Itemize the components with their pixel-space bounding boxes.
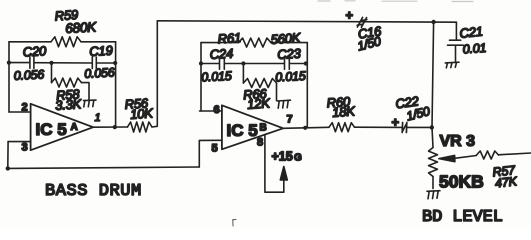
wire: main vertical to VR3: [432, 22, 434, 148]
wire: C21 to ground: [455, 45, 457, 62]
svg-text:6: 6: [214, 104, 220, 116]
wire: rail riser to pin5: [199, 140, 222, 167]
node: cap line 2 right junction: [304, 61, 308, 65]
capacitor C20: [30, 57, 34, 69]
svg-text:C24: C24: [209, 46, 233, 62]
svg-text:IC 5: IC 5: [36, 120, 67, 139]
wire: cap line 2 mid: [225, 63, 285, 65]
svg-text:BASS DRUM: BASS DRUM: [45, 182, 142, 201]
+15G supply arrow: [280, 167, 287, 181]
wire: cap line 2 left: [201, 63, 219, 65]
wire: cap line left: [9, 62, 30, 64]
node: cap line 2 left junction: [199, 61, 203, 65]
svg-text:3.3K: 3.3K: [55, 96, 83, 113]
wire: R58 drop from mid node: [51, 63, 53, 83]
svg-text:5: 5: [212, 143, 218, 155]
resistor R66: [243, 79, 276, 88]
svg-text:12K: 12K: [247, 95, 272, 112]
wire: box2 top edge right segment: [271, 42, 307, 44]
capacitor C19: [92, 57, 96, 69]
capacitor C22 (electrolytic): [402, 123, 407, 133]
svg-text:+: +: [392, 115, 400, 130]
svg-text:0.056: 0.056: [84, 65, 115, 81]
svg-text:7: 7: [287, 114, 293, 126]
wire: IC5A output: [93, 126, 127, 128]
wire: BASS DRUM input rail: [8, 167, 200, 168]
resistor R56: [128, 122, 153, 132]
svg-text:2: 2: [22, 102, 28, 114]
svg-text:0.056: 0.056: [13, 67, 44, 83]
node: right cap junction: [113, 61, 117, 65]
faint page-crop artifacts top: [318, 0, 473, 3]
resistor R57: [477, 151, 499, 159]
wire: box2 top edge left segment: [201, 42, 239, 44]
wire: R60 to C22: [355, 126, 402, 128]
node: top bus junction: [431, 20, 435, 24]
svg-text:A: A: [71, 122, 78, 133]
wire: R56 to riser: [152, 21, 157, 127]
svg-text:0.015: 0.015: [275, 69, 306, 85]
wire: wiper to R57: [455, 156, 477, 159]
wire: box1 top edge left segment: [9, 41, 51, 43]
svg-text:1: 1: [95, 112, 101, 124]
svg-text:R61: R61: [217, 30, 241, 47]
svg-text:+15: +15: [272, 150, 293, 164]
svg-text:50KB: 50KB: [439, 172, 484, 192]
wire: R66 to ground: [276, 83, 278, 101]
node: IC5A output junction: [113, 125, 117, 129]
wire: box2 right edge: [306, 43, 308, 128]
capacitor C23: [285, 58, 290, 69]
svg-text:B: B: [260, 123, 267, 134]
wire: top bus: [157, 21, 456, 22]
resistor R61: [239, 38, 272, 47]
svg-text:680K: 680K: [65, 19, 98, 36]
ground (VR3): [427, 191, 440, 199]
ground (R66): [277, 100, 290, 108]
svg-text:VR 3: VR 3: [440, 133, 476, 150]
wire: C22 to mix node: [407, 126, 432, 128]
wire: box1 top edge right segment: [81, 41, 116, 43]
wire: cap line mid: [34, 62, 92, 64]
svg-text:560K: 560K: [270, 30, 302, 47]
op-amp IC5B: [222, 105, 283, 149]
resistor R58: [52, 78, 82, 87]
svg-text:C21: C21: [459, 24, 484, 41]
svg-text:G: G: [294, 153, 302, 164]
wire: cap line 2 right: [290, 63, 308, 65]
capacitor C16 (electrolytic): [357, 17, 367, 27]
node: mid cap junction: [49, 61, 53, 65]
wire: R57 to output: [499, 153, 531, 155]
wire: IC5B output: [283, 127, 329, 128]
wire: R66 drop from mid node: [242, 64, 244, 84]
stray crop tick bottom: [233, 220, 236, 227]
svg-text:C19: C19: [89, 43, 113, 59]
svg-text:47K: 47K: [494, 174, 518, 190]
wire: cap line right: [97, 62, 116, 64]
svg-text:10K: 10K: [130, 105, 155, 122]
ground (R58): [84, 100, 97, 107]
resistor R60: [329, 123, 355, 132]
wire: box2 left edge: [200, 43, 202, 111]
wire: box1 right edge: [115, 42, 117, 127]
node: mix junction at VR3: [430, 125, 434, 129]
svg-text:BD LEVEL: BD LEVEL: [422, 208, 503, 227]
node: left cap junction: [7, 61, 11, 65]
svg-text:18K: 18K: [332, 103, 357, 120]
wire: VR3 bottom: [432, 177, 434, 189]
svg-text:C20: C20: [22, 43, 47, 59]
wire: pin8 supply lead: [265, 135, 284, 193]
svg-text:3: 3: [22, 142, 28, 154]
node: rail junction: [6, 166, 10, 170]
potentiometer VR3: [429, 148, 438, 177]
svg-text:+: +: [346, 8, 354, 23]
wire: pin2 lead: [9, 111, 31, 113]
wire: pin3 drop to input rail: [7, 142, 9, 169]
wire: R58 to ground: [82, 83, 90, 101]
wire: box1 left edge: [8, 42, 10, 112]
svg-text:IC 5: IC 5: [227, 121, 258, 140]
node: cap line 2 mid junction: [241, 61, 245, 65]
ground (C21): [445, 62, 459, 68]
capacitor C24: [220, 58, 225, 69]
svg-text:0.01: 0.01: [462, 41, 486, 57]
VR3 wiper arrow: [439, 155, 455, 161]
wire: C21 branch: [455, 22, 457, 40]
node: IC5B output junction: [303, 126, 307, 130]
op-amp IC5A: [31, 104, 94, 150]
wire: pin3 lead: [8, 141, 31, 143]
svg-text:8: 8: [257, 137, 263, 149]
svg-text:0.015: 0.015: [201, 69, 232, 85]
svg-text:C23: C23: [277, 46, 302, 62]
capacitor C21: [448, 40, 464, 45]
resistor R59: [51, 37, 81, 47]
wire: pin6 lead: [200, 110, 222, 112]
